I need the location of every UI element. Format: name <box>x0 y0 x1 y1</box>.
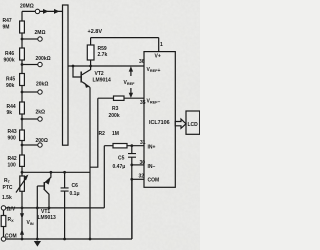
wire pin 31 line <box>104 145 144 147</box>
wire node line y172 <box>22 171 90 173</box>
transistor VT1 <box>45 172 51 182</box>
resistor R59 <box>87 45 94 60</box>
resistor R43 <box>20 130 25 141</box>
resistor RX <box>1 216 6 227</box>
wire VT1 base down to rail <box>36 186 38 239</box>
wire R3 feed <box>90 98 98 167</box>
thermistor RT box <box>20 176 25 191</box>
capacitor C6 <box>64 172 66 239</box>
wire tap 20k <box>22 91 38 93</box>
arrow IC to LCD <box>175 119 186 128</box>
wire tap 200 <box>22 144 38 146</box>
wire VT2 emitter long vertical <box>89 87 91 239</box>
resistor R44 <box>20 102 25 114</box>
VREF annotation line <box>130 69 132 95</box>
wire tap 200k <box>22 64 38 66</box>
VT1 emitter arrowhead (points to bar) <box>45 178 50 184</box>
wire pin 30 stub <box>132 164 144 166</box>
wire +2.8V rail <box>91 38 159 52</box>
wire R59 leads <box>90 38 92 66</box>
capacitor C5 <box>131 146 133 165</box>
resistor R2 <box>113 144 127 148</box>
VREF down arrowhead <box>129 93 133 98</box>
switch bus box <box>63 5 69 145</box>
resistor RX leads <box>3 210 5 237</box>
resistor R46 <box>20 48 25 60</box>
LCD box <box>186 111 200 134</box>
wire VREF+ node line to pin 36 <box>68 65 144 67</box>
wire pin 35 line <box>98 97 144 99</box>
wire ladder top to 20M terminal <box>22 10 63 12</box>
wire omega/V line <box>6 207 105 209</box>
resistor R3 <box>114 96 125 100</box>
resistor R47 <box>20 21 25 33</box>
VREF up arrowhead <box>129 66 133 71</box>
wire pin 32 stub <box>132 178 144 180</box>
VT2 emitter arrowhead <box>84 82 89 88</box>
wire tap 2M <box>22 38 38 40</box>
wire Vin vertical <box>21 208 23 239</box>
VIN down arrowhead <box>20 213 24 219</box>
thermistor PTC leads <box>21 191 23 208</box>
wire ladder vertical <box>21 11 23 176</box>
wire tap 2k <box>22 118 38 120</box>
open terminal circles <box>1 9 42 241</box>
resistor R42 <box>20 155 25 166</box>
transistor VT2 <box>73 66 81 77</box>
thermistor arrow <box>16 177 27 192</box>
VIN up arrowhead <box>20 229 24 235</box>
wire COM pin down to rail <box>131 179 133 239</box>
wire C5 bottom to COM pin <box>131 165 133 179</box>
wire R2 feed <box>103 146 105 208</box>
wire COM rail <box>6 179 132 239</box>
ground symbol <box>34 241 41 247</box>
resistor R45 <box>20 74 25 86</box>
arrowheads 20M to bus <box>43 9 49 14</box>
IC ICL7106 box <box>144 52 175 188</box>
